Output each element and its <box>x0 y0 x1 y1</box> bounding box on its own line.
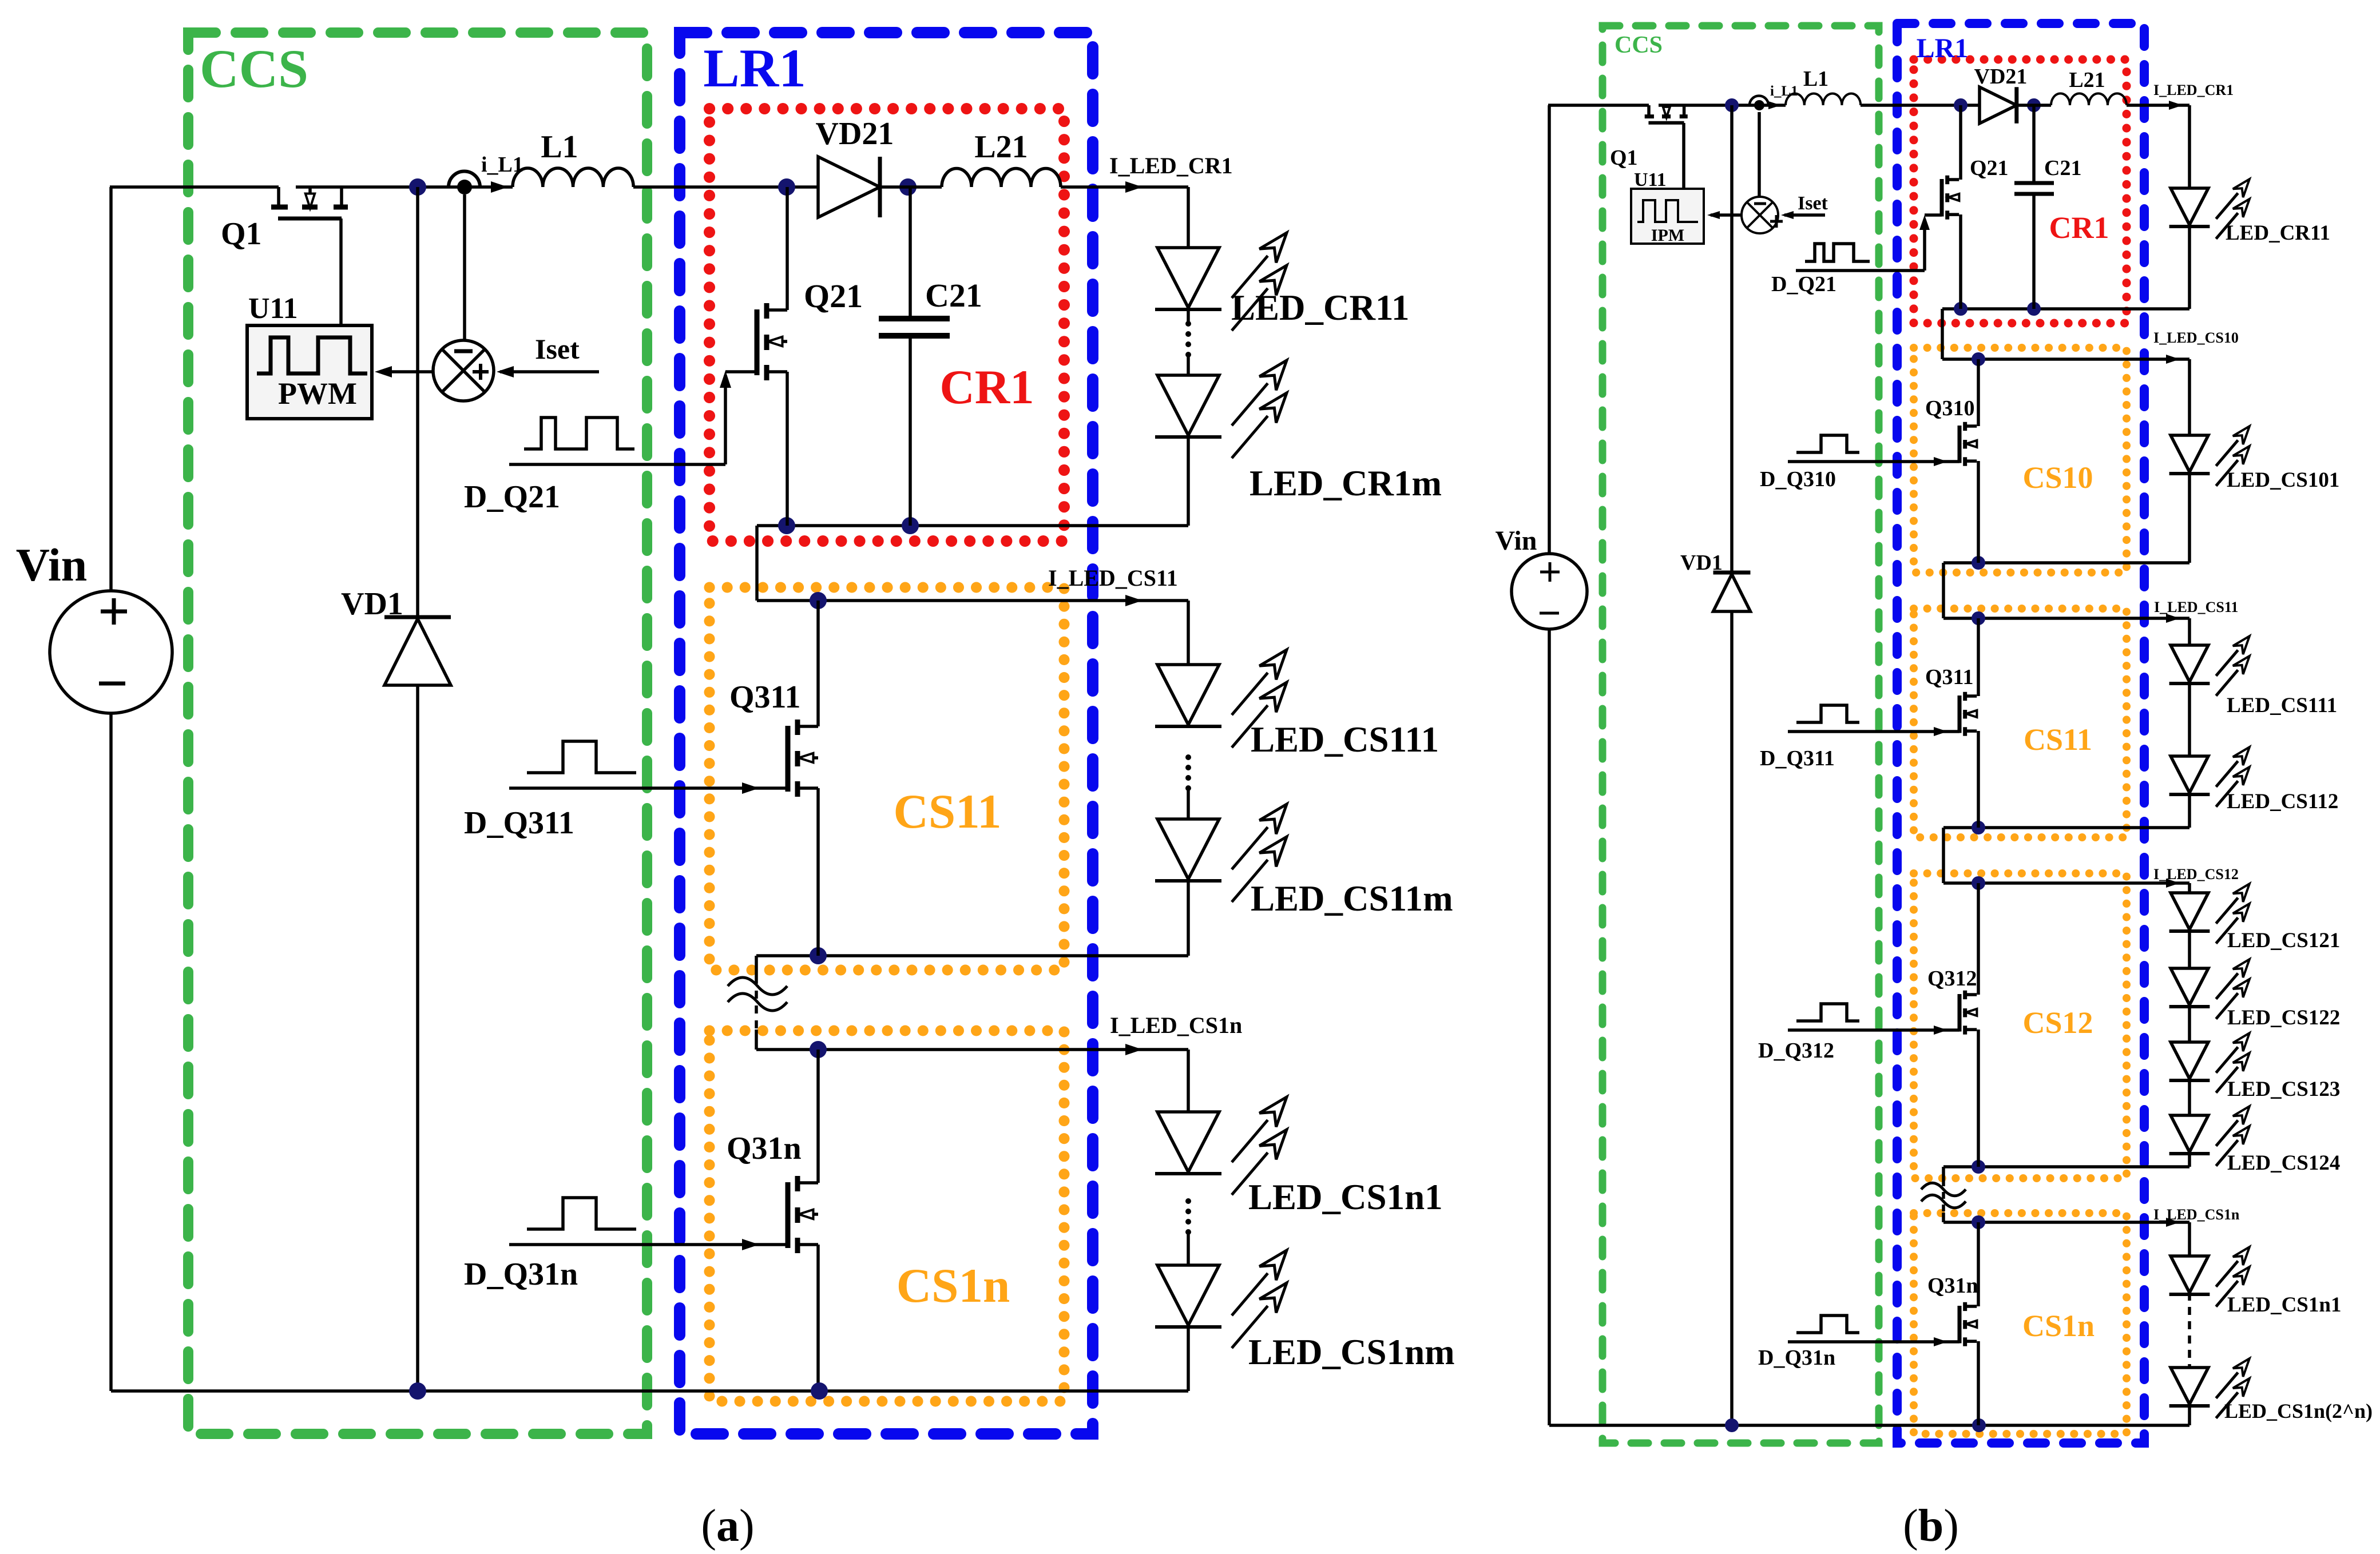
transistor Q21 (b) <box>1940 179 1944 217</box>
svg-text:Q311: Q311 <box>1925 665 1973 689</box>
wire: Q310 drain (b) <box>1977 359 1980 426</box>
wire: Vin top leg (b) <box>1548 105 1551 554</box>
svg-text:I_LED_CR1: I_LED_CR1 <box>1109 153 1233 178</box>
figure (b): dashed zone box LR1 (blue) <box>1897 23 2144 1443</box>
wire: Q311 source (b) <box>1977 731 1980 828</box>
LED LED_CS122 (b) <box>2171 968 2208 1005</box>
LED LED_CS121 (b) <box>2171 893 2208 929</box>
svg-text:(a): (a) <box>701 1501 754 1551</box>
wire: CS10 to CS11 step (b) <box>1942 563 1945 618</box>
figure (b): dotted zone box CR1 (red) <box>1914 59 2127 323</box>
svg-text:Vin: Vin <box>1496 526 1537 556</box>
transistor Q311 (b) <box>1958 695 1962 733</box>
voltage source Vin (b) <box>1512 554 1587 629</box>
wire: Q21 drain (b) <box>1959 105 1962 180</box>
svg-text:i_L1: i_L1 <box>1770 84 1798 99</box>
waveform glyph D_Q311 (a) <box>527 741 636 773</box>
node: Q31n source bottom junction (a) <box>811 1382 828 1400</box>
waveform glyph D_Q311 (b) <box>1796 705 1859 722</box>
svg-text:LED_CR11: LED_CR11 <box>1231 288 1410 328</box>
node: Q31n source bottom junction (b) <box>1972 1418 1986 1432</box>
wire: CR1 bottom rail (a) <box>757 524 1188 527</box>
LED LED_CS1n1 (b) <box>2171 1256 2208 1293</box>
wire: bottom return rail (b) <box>1549 1424 2189 1427</box>
node: VD21 cathode (a) <box>899 178 917 196</box>
wire: sensor to multiplier (a) <box>463 194 466 340</box>
wire: Q312 drain (b) <box>1977 883 1980 995</box>
wire: CS12 string return (b) <box>2188 1152 2191 1167</box>
svg-text:L21: L21 <box>974 129 1028 165</box>
svg-text:IPM: IPM <box>1651 226 1684 245</box>
transistor Q1 (b) <box>1647 105 1651 117</box>
svg-text:CS12: CS12 <box>2022 1005 2093 1040</box>
wire: LED_CS101 return (b) <box>2188 472 2191 563</box>
transistor Q21 (a) <box>755 309 760 375</box>
wire: I_LED_CS12 rail (b) <box>1943 881 2189 885</box>
wire: CS12 s2 (b) <box>2188 1005 2191 1042</box>
node: C21 bottom junction (a) <box>902 517 919 534</box>
svg-text:VD21: VD21 <box>816 116 894 152</box>
svg-text:D_Q311: D_Q311 <box>464 805 574 841</box>
svg-text:CS11: CS11 <box>2024 722 2092 757</box>
wire: Q311 drain (a) <box>816 601 820 726</box>
wire: CR1 string return (a) <box>1187 435 1190 526</box>
wire: CR1 bottom rail (b) <box>1942 307 2189 311</box>
figure (a): dotted zone box CS1n (orange) <box>709 1031 1064 1401</box>
waveform glyph D_Q21 (b) <box>1805 244 1870 261</box>
svg-text:LR1: LR1 <box>703 38 806 98</box>
wire: CS12 s3 (b) <box>2188 1079 2191 1115</box>
svg-text:LED_CS1nm: LED_CS1nm <box>1248 1332 1455 1372</box>
svg-text:LED_CS11m: LED_CS11m <box>1251 879 1453 919</box>
waveform glyph D_Q21 (a) <box>524 418 634 449</box>
node: VD21 anode (a) <box>778 178 795 196</box>
svg-text:LED_CS124: LED_CS124 <box>2227 1151 2340 1175</box>
svg-text:Iset: Iset <box>1798 193 1828 214</box>
wire: CR1 to CS10 step (b) <box>1941 309 1944 359</box>
LED LED_CS11m (a) <box>1157 819 1219 879</box>
svg-text:LED_CS111: LED_CS111 <box>2227 694 2337 717</box>
wire: multiplier to IPM with arrow (b) <box>1711 213 1742 217</box>
node: Q21 source junction (b) <box>1954 302 1968 316</box>
wire: D_Q311 gate feed (a) <box>509 786 788 790</box>
LED LED_CS101 (b) <box>2171 435 2208 472</box>
break symbol (b) <box>1921 1183 1966 1196</box>
node: VD21 anode junction (b) <box>1954 98 1968 112</box>
svg-text:LED_CS121: LED_CS121 <box>2227 929 2340 952</box>
wire: bottom return rail (a) <box>111 1389 1188 1393</box>
multiplier/comparator (b) <box>1742 197 1778 233</box>
svg-text:LED_CS112: LED_CS112 <box>2227 790 2338 813</box>
wire: I_LED_CS1n rail (b) <box>1943 1221 2189 1224</box>
transistor Q1 (a) <box>277 187 280 207</box>
svg-text:U11: U11 <box>1634 169 1667 190</box>
figure (b): dotted zone box CS10 (orange) <box>1914 348 2127 573</box>
node: VD21 cathode junction (b) <box>2027 98 2041 112</box>
diode VD1 (a) <box>416 187 419 617</box>
node: Q21 source junction (a) <box>778 517 795 534</box>
svg-text:Q31n: Q31n <box>727 1131 802 1166</box>
svg-text:I_LED_CS11: I_LED_CS11 <box>1048 565 1178 591</box>
wire: CS11 string return (b) <box>2188 793 2191 828</box>
svg-text:I_LED_CS1n: I_LED_CS1n <box>2153 1206 2240 1223</box>
LED LED_CS1n1 (a) <box>1157 1112 1219 1172</box>
inductor L21 (b) <box>2051 93 2127 105</box>
svg-text:LR1: LR1 <box>1917 33 1969 63</box>
waveform glyph D_Q31n (b) <box>1796 1315 1859 1333</box>
LED LED_CR11 (b) <box>2171 188 2208 225</box>
wire: Iset input (a) <box>500 370 599 373</box>
svg-text:LED_CS123: LED_CS123 <box>2227 1078 2340 1101</box>
break symbol (a) <box>728 977 787 995</box>
svg-text:LED_CS1n(2^n): LED_CS1n(2^n) <box>2224 1400 2373 1422</box>
svg-text:LED_CS111: LED_CS111 <box>1251 720 1439 760</box>
LED LED_CS1n(2^n) (b) <box>2171 1368 2208 1404</box>
wire: D_Q310 gate feed (b) <box>1788 460 1959 463</box>
wire: LED_CS101 drop (b) <box>2188 359 2191 435</box>
wire: Vin bottom leg (a) <box>109 713 113 1391</box>
svg-text:Q1: Q1 <box>221 216 262 252</box>
svg-text:LED_CS1n1: LED_CS1n1 <box>2227 1293 2341 1317</box>
wire: CS12 s1 (b) <box>2188 929 2191 968</box>
LED LED_CS124 (b) <box>2171 1115 2208 1152</box>
svg-text:D_Q21: D_Q21 <box>1771 272 1836 296</box>
wire: LED string CS11 drop (a) <box>1187 601 1190 665</box>
wire: LED_CS111 drop (b) <box>2188 618 2191 645</box>
node: Q311 source junction (a) <box>810 947 827 964</box>
svg-text:Q31n: Q31n <box>1927 1274 1978 1298</box>
wire: I_LED_CS10 rail (b) <box>1942 357 2189 361</box>
node: Q310 drain junction (b) <box>1972 352 1985 366</box>
LED LED_CR1m (a) <box>1157 375 1219 435</box>
wire: Vin bottom leg (b) <box>1548 629 1551 1425</box>
wire: I_LED_CS11 rail (b) <box>1943 617 2189 620</box>
wire: gate of Q1 to PWM (a) <box>339 218 343 325</box>
wire: CS11 bottom rail (b) <box>1943 826 2189 829</box>
wire: CS11 bottom rail (a) <box>756 954 1188 957</box>
svg-text:CS10: CS10 <box>2022 460 2093 495</box>
svg-text:D_Q31n: D_Q31n <box>1758 1346 1835 1370</box>
wire: D_Q311 gate feed (b) <box>1788 730 1959 733</box>
wire: CS12 to CS1n step with break (b) <box>1942 1167 1945 1179</box>
waveform glyph D_Q312 (b) <box>1796 1004 1859 1021</box>
node: Q311 source junction (b) <box>1972 821 1985 834</box>
figure (a): dotted zone box CR1 (red) <box>709 109 1064 541</box>
wire: LED_CR11 return (b) <box>2188 225 2191 309</box>
inductor L1 (b) <box>1786 93 1861 105</box>
LED LED_CS111 (a) <box>1157 665 1219 725</box>
svg-text:LED_CS122: LED_CS122 <box>2227 1006 2340 1030</box>
transistor Q311 (a) <box>786 726 791 792</box>
figure (a): dashed zone box CCS (green) <box>188 33 647 1434</box>
wire: Q31n drain (b) <box>1977 1222 1980 1306</box>
svg-text:Q21: Q21 <box>804 277 863 315</box>
svg-text:D_Q312: D_Q312 <box>1758 1039 1834 1063</box>
svg-text:CR1: CR1 <box>2049 210 2109 245</box>
svg-text:CS1n: CS1n <box>897 1259 1010 1313</box>
wire: multiplier to PWM with arrow (a) <box>384 370 433 373</box>
capacitor C21 (b) <box>2032 105 2036 183</box>
svg-text:C21: C21 <box>2044 156 2081 180</box>
diode VD21 (a) <box>818 157 880 217</box>
wire: CS12 bottom rail (b) <box>1943 1165 2189 1169</box>
node: Q310 source junction (b) <box>1972 556 1985 570</box>
wire: L21 to LED string CR1 (a) <box>1061 185 1188 189</box>
figure (b): dotted zone box CS11 (orange) <box>1914 609 2127 837</box>
figure (a): dashed zone box LR1 (blue) <box>680 33 1093 1434</box>
svg-text:Vin: Vin <box>16 539 88 591</box>
LED LED_CS1nm (a) <box>1157 1265 1219 1325</box>
wire: D_Q31n gate feed (a) <box>509 1243 788 1246</box>
svg-text:CR1: CR1 <box>939 360 1034 414</box>
capacitor C21 (a) <box>909 187 912 319</box>
svg-text:L1: L1 <box>541 129 578 165</box>
wire: Q21 drain (a) <box>786 187 789 310</box>
svg-text:Q21: Q21 <box>1970 156 2009 180</box>
figure (b): dotted zone box CS12 (orange) <box>1914 873 2127 1178</box>
svg-text:I_LED_CR1: I_LED_CR1 <box>2153 82 2234 98</box>
svg-text:C21: C21 <box>925 277 982 314</box>
wire: VD21 to L21 (a) <box>880 185 942 189</box>
svg-text:CCS: CCS <box>200 38 308 99</box>
wire: LED_CS1n1 drop (b) <box>2188 1222 2191 1256</box>
node: Q312 source junction (b) <box>1972 1160 1985 1174</box>
wire: top rail L1 to VD21 (b) <box>1861 104 1980 107</box>
svg-text:LED_CR11: LED_CR11 <box>2226 221 2330 245</box>
wire: top rail Q1 to L1 (a) <box>296 185 513 189</box>
wire: CS11 string middle (b) <box>2188 682 2191 756</box>
svg-text:VD21: VD21 <box>1974 65 2028 89</box>
wire: CS11 to CS1n step with break (a) <box>755 956 758 976</box>
node: drain junction (b) <box>1725 98 1739 112</box>
wire: D_Q21 gate feed (b) <box>1796 269 1925 272</box>
wire: LED string CR1 drop (a) <box>1187 187 1190 248</box>
wire + dots: CS1n string middle (a) <box>1185 1198 1191 1204</box>
wire: I_LED_CS1n rail (a) <box>756 1048 1188 1051</box>
svg-text:D_Q21: D_Q21 <box>464 479 560 515</box>
svg-text:LED_CS1n1: LED_CS1n1 <box>1248 1177 1443 1217</box>
svg-text:LED_CS101: LED_CS101 <box>2227 468 2339 492</box>
svg-text:U11: U11 <box>248 292 298 325</box>
svg-text:Iset: Iset <box>535 333 580 365</box>
wire: I_LED_CS11 rail (a) <box>757 599 1188 602</box>
transistor Q31n (a) <box>786 1182 791 1248</box>
svg-text:L1: L1 <box>1803 67 1828 91</box>
current sensor i_L1 (a) <box>449 171 480 187</box>
diode VD21 (b) <box>1980 87 2017 124</box>
node: Q31n drain junction (a) <box>810 1041 827 1058</box>
figure (a): dotted zone box CS11 (orange) <box>709 587 1064 970</box>
LED LED_CR11 (a) <box>1157 248 1219 308</box>
wire: Vin top leg (a) <box>109 187 113 591</box>
svg-text:Q312: Q312 <box>1927 967 1977 991</box>
wire: Iset input (b) <box>1784 213 1825 217</box>
inductor L21 (a) <box>942 169 1061 188</box>
svg-text:I_LED_CS12: I_LED_CS12 <box>2153 866 2239 883</box>
wire: Q31n drain (a) <box>816 1050 820 1183</box>
wire: CR1 to CS11 step (a) <box>755 526 759 601</box>
inductor L1 (a) <box>513 168 633 187</box>
svg-text:D_Q310: D_Q310 <box>1760 467 1836 491</box>
svg-text:I_LED_CS10: I_LED_CS10 <box>2153 329 2239 346</box>
wire: CS10 bottom rail (b) <box>1943 561 2189 565</box>
svg-text:I_LED_CS11: I_LED_CS11 <box>2154 599 2238 615</box>
svg-text:Q310: Q310 <box>1925 396 1975 420</box>
wire: gate of Q1 to IPM (b) <box>1682 123 1685 189</box>
current sensor i_L1 (b) <box>1750 96 1768 105</box>
wire: top rail left (a) <box>110 185 279 189</box>
wire: CS11 to CS12 step (b) <box>1942 828 1945 883</box>
IPM controller U11 (b) <box>1631 189 1704 244</box>
wire: L21 to LED_CR11 (b) <box>2127 104 2189 107</box>
wire: top rail left (b) <box>1548 104 1649 107</box>
wire: CS1n string return (a) <box>1187 1325 1190 1391</box>
svg-text:CS11: CS11 <box>894 785 1002 838</box>
waveform glyph D_Q31n (a) <box>527 1198 636 1229</box>
wire: D_Q21 gate feed (a) <box>509 463 725 466</box>
svg-text:VD1: VD1 <box>1680 551 1723 575</box>
svg-text:D_Q311: D_Q311 <box>1760 746 1835 770</box>
figure (b): dotted zone box CS1n (orange) <box>1914 1213 2127 1434</box>
wire: D_Q31n gate feed (b) <box>1788 1340 1959 1344</box>
node: Q311 drain junction (a) <box>810 592 827 609</box>
svg-text:CS1n: CS1n <box>2022 1309 2095 1343</box>
node: drain junction (a) <box>409 178 426 196</box>
multiplier/comparator (a) <box>433 340 494 401</box>
LED LED_CS123 (b) <box>2171 1042 2208 1079</box>
wire: LED string CS1n drop (a) <box>1187 1050 1190 1112</box>
svg-text:Q1: Q1 <box>1610 146 1638 170</box>
voltage source Vin (a) <box>50 591 172 713</box>
svg-text:LED_CR1m: LED_CR1m <box>1249 463 1442 503</box>
svg-text:D_Q31n: D_Q31n <box>464 1257 578 1292</box>
node: Q31n drain junction (b) <box>1972 1215 1985 1229</box>
wire + dots: CS11 string middle (a) <box>1185 754 1191 760</box>
figure (b): dashed zone box CCS (green) <box>1602 26 1879 1443</box>
wire: Q311 drain (b) <box>1977 618 1980 696</box>
wire: VD21 to L21 (b) <box>2017 104 2051 107</box>
node: VD1 bottom junction (b) <box>1725 1418 1739 1432</box>
node: Q312 drain junction (b) <box>1972 876 1985 890</box>
wire: top rail L1 to VD21 (a) <box>633 185 818 189</box>
wire: Q21 source (a) <box>786 372 789 526</box>
wire: top rail Q1 to L1 (b) <box>1659 104 1786 107</box>
svg-text:CCS: CCS <box>1615 32 1663 58</box>
transistor Q31n (b) <box>1958 1306 1962 1344</box>
wire: LED_CS121 drop (b) <box>2188 883 2191 893</box>
transistor Q310 (b) <box>1958 426 1962 463</box>
wire + dots: CR1 string middle (a) <box>1187 309 1190 324</box>
wire: Q31n source (a) <box>816 1245 820 1391</box>
node: C21 bottom junction (b) <box>2027 302 2041 316</box>
LED LED_CS111 (b) <box>2171 645 2208 682</box>
node: Q311 drain junction (b) <box>1972 611 1985 625</box>
wire: CS1n string return (b) <box>2188 1404 2191 1425</box>
PWM controller U11 (a) <box>247 325 372 419</box>
svg-text:Q311: Q311 <box>729 679 800 715</box>
node: VD1 bottom junction (a) <box>409 1382 426 1400</box>
svg-text:(b): (b) <box>1903 1501 1959 1551</box>
LED LED_CS112 (b) <box>2171 756 2208 793</box>
transistor Q312 (b) <box>1958 994 1962 1032</box>
svg-text:VD1: VD1 <box>341 586 403 622</box>
wire: Q311 source (a) <box>816 788 820 956</box>
wire: Q31n source (b) <box>1977 1341 1980 1425</box>
wire: LED_CR11 drop (b) <box>2188 105 2191 188</box>
wire: Q310 source (b) <box>1977 461 1980 563</box>
diode VD1 (b) <box>1730 105 1734 573</box>
wire: D_Q312 gate feed (b) <box>1788 1028 1959 1032</box>
wire: CS11 string return (a) <box>1187 879 1190 956</box>
wire: sensor to multiplier (b) <box>1758 112 1761 197</box>
svg-text:PWM: PWM <box>278 376 357 411</box>
wire: Q312 source (b) <box>1977 1030 1980 1167</box>
wire: CS1n string dashed middle (b) <box>2188 1293 2191 1368</box>
waveform glyph D_Q310 (b) <box>1796 435 1859 452</box>
svg-text:I_LED_CS1n: I_LED_CS1n <box>1110 1012 1242 1038</box>
wire: Q21 source (b) <box>1959 214 1962 309</box>
svg-text:L21: L21 <box>2069 68 2105 92</box>
